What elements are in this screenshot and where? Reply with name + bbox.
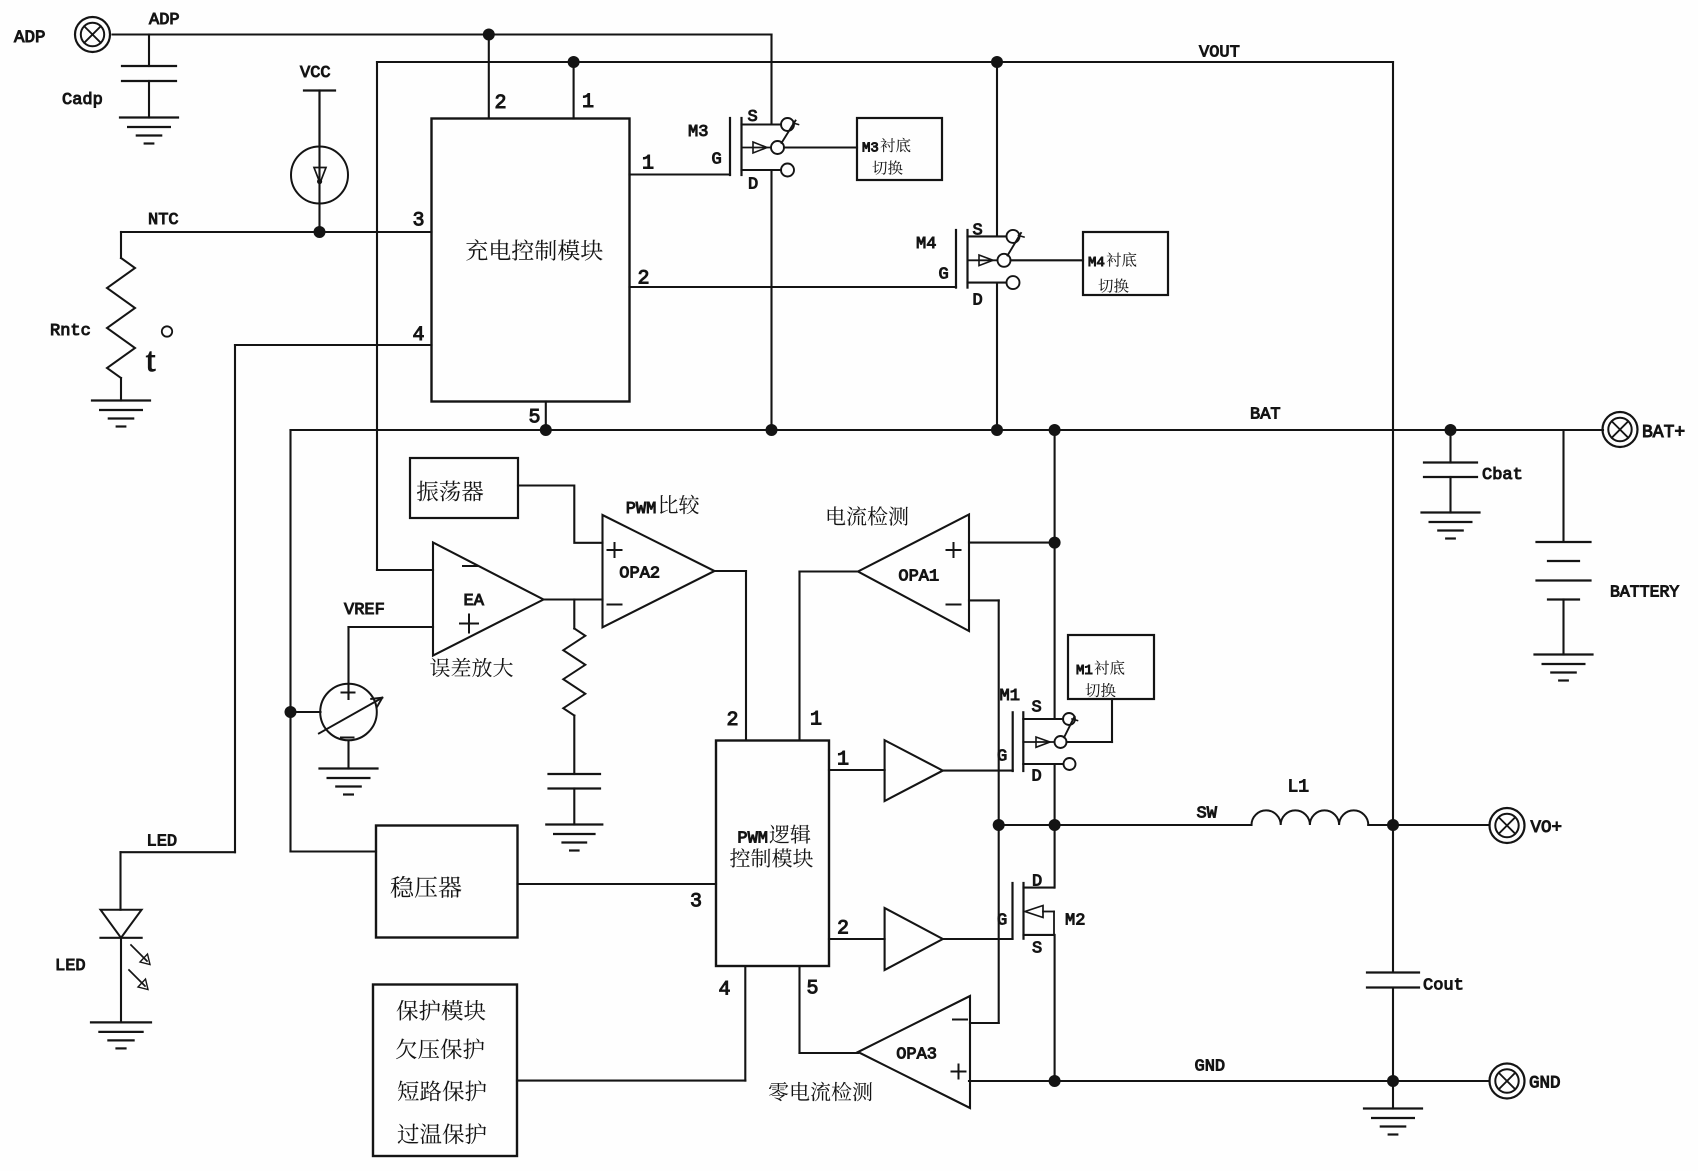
- junction M3 on BAT: [766, 424, 778, 436]
- svg-text:Cadp: Cadp: [62, 91, 103, 110]
- op-amp OPA1: [858, 515, 969, 632]
- svg-text:OPA2: OPA2: [619, 565, 660, 584]
- terminal BAT+: [1603, 412, 1686, 447]
- wire VOUT feedback to EA-: [377, 62, 433, 570]
- module U2 PWM logic box: [716, 741, 829, 967]
- svg-text:BAT: BAT: [1250, 406, 1281, 425]
- svg-text:2: 2: [495, 92, 507, 115]
- ground under Cadp: [120, 118, 178, 144]
- buffer A2: [885, 908, 943, 970]
- switch SW3 contacts: [771, 118, 799, 177]
- wire BAT to M1 S: [1054, 430, 1056, 719]
- svg-text:M4: M4: [916, 235, 936, 254]
- terminal VO+: [1490, 808, 1563, 843]
- wire SW1 to box: [1067, 699, 1113, 742]
- svg-text:VOUT: VOUT: [1199, 44, 1240, 63]
- junction pin1 on VOUT rail: [568, 56, 580, 68]
- net label VCC: [300, 64, 331, 83]
- junction Cbat: [1445, 424, 1457, 436]
- switch SW1 contacts: [1055, 713, 1078, 770]
- transistor M3: [688, 108, 781, 195]
- box regulator: [376, 826, 518, 938]
- svg-text:PWM: PWM: [626, 500, 657, 519]
- wire L1 to VO+: [1368, 824, 1489, 826]
- svg-text:M2: M2: [1065, 912, 1085, 931]
- wire Rntc bottom: [120, 378, 122, 401]
- wire comp C to ground: [573, 789, 575, 825]
- svg-text:M3: M3: [862, 141, 879, 157]
- svg-text:t: t: [146, 342, 156, 379]
- svg-text:S: S: [1032, 940, 1042, 959]
- switch SW4 contacts: [998, 230, 1025, 289]
- svg-text:Cbat: Cbat: [1482, 466, 1523, 485]
- ground under Rntc: [92, 401, 150, 427]
- wire M3 D to BAT: [770, 170, 772, 430]
- junction M4 on VOUT rail: [991, 56, 1003, 68]
- wire BAT left drop: [291, 430, 377, 852]
- junction VOUT trunk on SW-out: [1387, 819, 1399, 831]
- svg-text:ADP: ADP: [149, 11, 180, 30]
- pin 2 right U2: [829, 918, 885, 941]
- svg-text:2: 2: [638, 268, 650, 291]
- label current detect: [828, 506, 908, 526]
- svg-text:G: G: [939, 266, 949, 285]
- label PWM compare: [626, 495, 699, 519]
- wire SW3 to box: [784, 146, 857, 148]
- svg-text:5: 5: [529, 407, 541, 430]
- wire VOUT rail: [377, 61, 1393, 63]
- svg-text:D: D: [748, 176, 758, 195]
- net label ADP: [149, 11, 180, 30]
- box M1 substrate switch: [1068, 635, 1154, 699]
- inductor L1: [1252, 778, 1369, 826]
- value label Cout: [1423, 977, 1464, 996]
- net label BAT: [1250, 406, 1281, 425]
- label zero current detect: [769, 1082, 872, 1102]
- ground on GND rail: [1364, 1081, 1422, 1135]
- resistor Rntc: [50, 258, 135, 378]
- LED arrows: [129, 945, 150, 990]
- wire LED: [121, 851, 236, 853]
- svg-text:D: D: [1032, 768, 1042, 787]
- wire LED cathode: [120, 938, 122, 1023]
- junction M4 on BAT: [991, 424, 1003, 436]
- svg-text:SW: SW: [1197, 805, 1218, 824]
- junction NTC node: [314, 226, 326, 238]
- svg-text:1: 1: [642, 153, 654, 176]
- value label Cbat: [1482, 466, 1523, 485]
- svg-text:VREF: VREF: [344, 601, 385, 620]
- svg-text:1: 1: [810, 709, 822, 732]
- svg-text:M4: M4: [1088, 255, 1105, 271]
- net label VOUT: [1199, 44, 1240, 63]
- svg-text:ADP: ADP: [14, 28, 46, 48]
- svg-text:S: S: [973, 222, 983, 241]
- pin 2 top of U1: [489, 35, 507, 119]
- junction OPA- on SW: [993, 819, 1005, 831]
- power VCC bar: [304, 91, 335, 147]
- transistor M1: [997, 687, 1063, 787]
- svg-text:3: 3: [413, 210, 425, 233]
- svg-text:D: D: [1032, 873, 1042, 892]
- svg-text:M1: M1: [1076, 663, 1093, 679]
- junction Cout on GND: [1387, 1075, 1399, 1087]
- wire OPA1 out to pin1: [800, 572, 859, 741]
- pin 5 bottom U2: [800, 966, 859, 1053]
- svg-text:LED: LED: [147, 833, 178, 852]
- wire osc to OPA2+: [518, 486, 603, 543]
- net label GND: [1195, 1058, 1226, 1077]
- wire M2 S to GND: [1054, 935, 1056, 1081]
- junction M2 on GND: [1049, 1075, 1061, 1087]
- svg-text:BATTERY: BATTERY: [1610, 583, 1679, 602]
- transistor M4: [916, 222, 1006, 311]
- transistor M2: [997, 873, 1085, 959]
- svg-text:VCC: VCC: [300, 64, 331, 83]
- svg-text:1: 1: [837, 749, 849, 772]
- svg-text:S: S: [748, 108, 758, 127]
- op-amp OPA2: [603, 515, 715, 627]
- wire pin4 down: [234, 345, 236, 852]
- wire LED anode: [119, 852, 121, 910]
- svg-text:M3: M3: [688, 123, 708, 142]
- pin 4 left of U1: [235, 324, 432, 347]
- junction M1 on SW: [1049, 819, 1061, 831]
- battery BATTERY: [1537, 430, 1591, 655]
- wire A2 to M2 G: [943, 938, 1013, 940]
- terminal GND: [1490, 1064, 1561, 1099]
- ground under Cbat: [1422, 513, 1480, 539]
- junction OPA1+ trunk: [1049, 537, 1061, 549]
- terminal ADP: [14, 17, 110, 52]
- net label SW: [1197, 805, 1218, 824]
- buffer A1: [885, 740, 943, 801]
- svg-text:VO+: VO+: [1531, 818, 1563, 838]
- svg-text:G: G: [712, 151, 722, 170]
- ground under comp: [546, 825, 602, 851]
- wire VREF to EA+: [349, 627, 434, 699]
- wire Cadp branch: [148, 35, 150, 67]
- pin 1 right U2: [829, 749, 885, 772]
- wire NTC: [121, 231, 432, 233]
- box M4 substrate switch: [1083, 232, 1168, 295]
- svg-text:LED: LED: [55, 957, 86, 976]
- wire SW: [999, 824, 1252, 826]
- svg-text:G: G: [997, 748, 1007, 767]
- op-amp OPA3: [858, 996, 970, 1108]
- wire M1 D to SW: [1054, 764, 1056, 888]
- box protection: [373, 985, 517, 1157]
- svg-text:L1: L1: [1288, 778, 1310, 798]
- temperature symbol t: [146, 326, 172, 379]
- svg-text:Rntc: Rntc: [50, 322, 91, 341]
- wire Cout to GND: [1392, 988, 1394, 1082]
- pin 3 label: [413, 210, 425, 233]
- capacitor comp: [549, 774, 601, 789]
- wire ADP rail: [113, 33, 772, 35]
- wire M4 D to BAT: [996, 283, 998, 430]
- wire EA out to OPA2-: [544, 598, 603, 600]
- label BATTERY: [1610, 583, 1679, 602]
- svg-text:D: D: [973, 292, 983, 311]
- svg-text:3: 3: [690, 891, 702, 914]
- pin 5 bottom of U1: [529, 402, 546, 431]
- wire VCC to NTC node: [318, 91, 320, 233]
- svg-text:S: S: [1032, 699, 1042, 718]
- net label NTC: [148, 211, 179, 230]
- svg-text:4: 4: [413, 324, 425, 347]
- wire GND rail: [969, 1080, 1490, 1082]
- wire VOUT trunk: [1392, 62, 1394, 825]
- ground under VREF: [320, 769, 378, 795]
- pin 2 right of U1: [630, 268, 957, 291]
- pin 1 right of U1: [630, 153, 731, 176]
- pin1 top U2 label: [810, 709, 822, 732]
- wire VREF to ground: [347, 741, 349, 769]
- svg-text:GND: GND: [1529, 1074, 1561, 1094]
- wire OPA1+ to BAT trunk: [969, 542, 1055, 544]
- ground under battery: [1535, 655, 1593, 681]
- diode LED: [101, 910, 142, 938]
- capacitor Cout: [1367, 973, 1419, 988]
- pin 3 left U2: [518, 884, 717, 914]
- wire SW-out to Cout: [1392, 825, 1394, 973]
- junction on ADP rail at pin2: [483, 29, 495, 41]
- svg-text:4: 4: [719, 979, 731, 1002]
- source VREF circle: [319, 684, 382, 741]
- svg-text:Cout: Cout: [1423, 977, 1464, 996]
- wire OPA1- to SW: [969, 600, 999, 825]
- junction M1 trunk on BAT: [1049, 424, 1061, 436]
- ground under LED: [91, 1022, 151, 1048]
- wire SW4 to box: [1011, 259, 1084, 261]
- svg-text:OPA1: OPA1: [898, 568, 939, 587]
- svg-text:2: 2: [837, 918, 849, 941]
- box M3 substrate switch: [857, 118, 942, 180]
- net label VREF: [344, 601, 385, 620]
- svg-text:M1: M1: [1000, 687, 1020, 706]
- wire comp R to C: [573, 716, 575, 775]
- svg-text:OPA3: OPA3: [896, 1046, 937, 1065]
- wire OPA2 out to pin2: [715, 571, 747, 741]
- junction VREF tap: [285, 706, 297, 718]
- svg-text:NTC: NTC: [148, 211, 179, 230]
- junction pin5 on BAT: [540, 424, 552, 436]
- wire VOUT to M4 S: [996, 62, 998, 236]
- wire BAT tap to VREF: [291, 711, 321, 713]
- box oscillator: [410, 458, 518, 518]
- svg-text:GND: GND: [1195, 1058, 1226, 1077]
- svg-text:1: 1: [582, 91, 594, 114]
- wire Rntc top: [120, 232, 122, 258]
- net label LED: [147, 833, 178, 852]
- source V1 circle: [291, 147, 348, 204]
- wire OPA3- to SW: [970, 825, 999, 1023]
- svg-text:5: 5: [807, 978, 819, 1001]
- capacitor Cbat: [1424, 430, 1477, 513]
- svg-text:2: 2: [727, 709, 739, 732]
- wire A1 to M1 G: [943, 770, 1013, 772]
- resistor comp: [563, 600, 585, 716]
- pin 4 bottom U2: [517, 966, 745, 1081]
- op-amp EA: [433, 543, 544, 656]
- svg-text:BAT+: BAT+: [1642, 423, 1685, 443]
- pin2 top U2 label: [727, 709, 739, 732]
- wire ADP to M3 S: [770, 35, 772, 125]
- wire BAT rail: [291, 429, 1604, 431]
- label LED: [55, 957, 86, 976]
- svg-text:EA: EA: [464, 592, 485, 611]
- capacitor Cadp: [62, 66, 176, 118]
- label error amplifier: [430, 658, 513, 677]
- pin 1 top of U1: [574, 62, 594, 119]
- svg-text:PWM: PWM: [737, 830, 768, 849]
- module U1 charge control box: [432, 119, 630, 402]
